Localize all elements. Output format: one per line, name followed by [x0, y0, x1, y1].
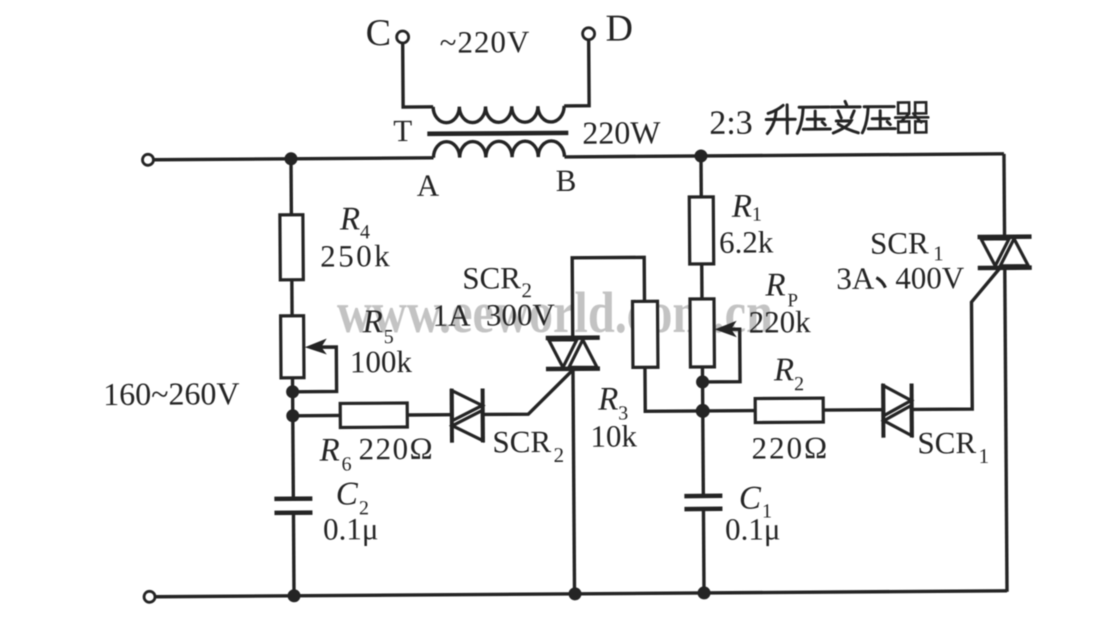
svg-text:250k: 250k: [320, 238, 392, 274]
svg-text:220k: 220k: [749, 304, 812, 339]
svg-text:400V: 400V: [895, 260, 965, 295]
svg-text:R: R: [362, 304, 383, 340]
svg-text:1A 300V: 1A 300V: [432, 297, 555, 333]
svg-text:R: R: [597, 382, 618, 418]
svg-text:1: 1: [978, 444, 989, 468]
svg-text:SCR: SCR: [870, 225, 929, 260]
svg-text:R: R: [764, 267, 785, 303]
svg-text:0.1μ: 0.1μ: [323, 511, 379, 546]
svg-text:160~260V: 160~260V: [103, 375, 240, 412]
svg-text:220Ω: 220Ω: [358, 431, 434, 467]
svg-text:6.2k: 6.2k: [719, 224, 774, 259]
svg-text:C: C: [365, 12, 391, 54]
svg-text:D: D: [605, 7, 633, 49]
svg-text:T: T: [393, 113, 412, 148]
svg-text:R: R: [731, 189, 752, 225]
svg-text:SCR: SCR: [492, 424, 551, 459]
svg-text:2:3: 2:3: [709, 105, 753, 142]
svg-text:R: R: [318, 432, 339, 468]
svg-text:R: R: [339, 201, 360, 237]
svg-text:SCR: SCR: [917, 425, 976, 460]
svg-text:A: A: [417, 168, 440, 203]
svg-text:220Ω: 220Ω: [751, 430, 829, 466]
svg-text:C: C: [336, 476, 359, 512]
svg-text:1: 1: [752, 204, 762, 226]
svg-text:R: R: [773, 352, 794, 388]
svg-text:10k: 10k: [590, 418, 637, 453]
svg-text:220W: 220W: [582, 114, 661, 151]
svg-text:2: 2: [794, 373, 804, 395]
svg-text:~220V: ~220V: [440, 24, 531, 60]
svg-text:2: 2: [553, 443, 564, 467]
svg-text:0.1μ: 0.1μ: [725, 511, 781, 546]
svg-text:3A: 3A: [836, 261, 875, 296]
svg-text:SCR: SCR: [462, 260, 521, 295]
svg-text:6: 6: [342, 453, 352, 475]
svg-text:100k: 100k: [350, 344, 413, 379]
svg-text:B: B: [556, 163, 577, 198]
